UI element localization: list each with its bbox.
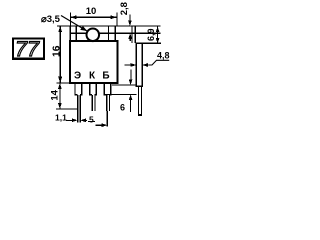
dim 5 lower line with arrow to pin3 axis bbox=[96, 123, 108, 127]
pin 1 lead (lines extended down as extension lines) bbox=[78, 95, 81, 123]
dim 10 line with arrows bbox=[71, 15, 117, 19]
svg-text:1,1: 1,1 bbox=[55, 113, 67, 123]
body bottom extension line to left bbox=[57, 82, 71, 84]
dim 1,1 arrows bbox=[66, 118, 87, 122]
figure number box 77 bbox=[13, 37, 44, 61]
mounting hole circle bbox=[87, 29, 100, 42]
side view tab strip bbox=[132, 26, 135, 43]
pin 3 centre extension line for dim 5 bbox=[106, 111, 108, 127]
svg-text:Б: Б bbox=[102, 71, 109, 82]
dim 6 arrows bbox=[129, 69, 133, 112]
tab right edge bbox=[114, 26, 116, 42]
side view pin bbox=[138, 87, 142, 116]
svg-text:10: 10 bbox=[86, 6, 97, 17]
dim 14 vertical line with arrows bbox=[58, 83, 62, 109]
svg-text:К: К bbox=[89, 71, 96, 82]
tab left edge bbox=[69, 26, 71, 42]
svg-text:6,9: 6,9 bbox=[146, 29, 156, 42]
dim 6,9 line with arrows bbox=[156, 27, 160, 44]
pin 1 collar bbox=[74, 84, 82, 95]
pin 3 lead bbox=[107, 95, 110, 111]
dim 10 extension lines bbox=[69, 13, 71, 26]
svg-text:2,8: 2,8 bbox=[119, 2, 130, 15]
side body top extension line bbox=[143, 42, 161, 44]
extension line collar bottom to side view bbox=[104, 94, 136, 96]
dim 5 line bbox=[88, 121, 95, 123]
pin 2 lead bbox=[92, 95, 95, 111]
pin 3 collar bbox=[104, 84, 112, 95]
svg-text:4,8: 4,8 bbox=[157, 51, 170, 61]
svg-text:16: 16 bbox=[51, 45, 62, 57]
svg-text:Э: Э bbox=[74, 71, 81, 82]
svg-text:6: 6 bbox=[120, 103, 125, 113]
tab inner left line bbox=[75, 26, 77, 41]
svg-text:77: 77 bbox=[15, 37, 40, 61]
side view body column bbox=[136, 43, 144, 86]
svg-text:⌀3,5: ⌀3,5 bbox=[41, 14, 61, 25]
front view tab step line (interrupted by hole) bbox=[70, 32, 86, 34]
dim 16 vertical line with arrows bbox=[58, 26, 62, 82]
pin 2 collar bbox=[89, 84, 97, 95]
leader line to hole with arrow bbox=[61, 16, 87, 32]
dim 4,8 arrows bbox=[125, 60, 170, 67]
extension line body bottom to side view bbox=[112, 84, 136, 86]
front view tab top line (extends left to dim 16 and right to side view) bbox=[57, 25, 161, 27]
tab inner right line bbox=[108, 26, 110, 41]
package body rectangle bbox=[70, 41, 117, 83]
pin tip extension line bbox=[56, 108, 78, 110]
dim 2,8 arrows bbox=[128, 15, 132, 42]
svg-text:14: 14 bbox=[49, 89, 60, 100]
svg-text:5: 5 bbox=[89, 115, 94, 125]
